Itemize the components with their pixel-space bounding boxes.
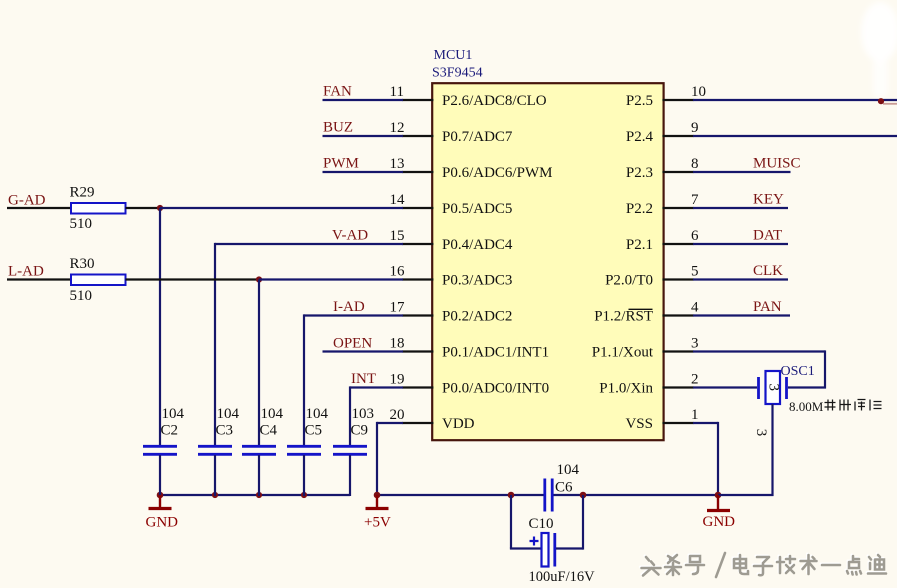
svg-text:8: 8 [691,156,699,172]
svg-text:P1.0/Xin: P1.0/Xin [599,380,653,396]
pin 17 stub [402,314,433,316]
wire INT to pin 19 [350,386,403,388]
capacitor C5 [287,445,321,448]
wire C4 bottom pin [258,455,260,496]
GND rail (left) [160,494,350,496]
wire R30 to junction (black) [126,278,260,280]
wire pin 3 horizontal [693,350,825,352]
svg-text:KEY: KEY [753,192,784,208]
svg-text:4: 4 [691,299,699,315]
wire pin3 vertical x825 [824,350,826,388]
wire net DAT (pin 6) [693,243,788,245]
wire net PWM (pin 13) [323,171,404,173]
wire net MUISC (pin 8) [693,171,791,173]
pin 13 stub [402,171,433,173]
junction C10 right [580,492,587,499]
junction dot on pin10 wire [878,98,884,104]
junction C4 rail [256,492,262,498]
svg-text:P0.5/ADC5: P0.5/ADC5 [442,201,512,217]
svg-text:OPEN: OPEN [333,336,372,352]
svg-text:C2: C2 [161,423,179,439]
wire VDD pin 20 corner [377,422,403,424]
svg-text:P0.4/ADC4: P0.4/ADC4 [442,237,513,253]
svg-text:P1.2/RST: P1.2/RST [594,308,653,324]
pin 7 stub [662,207,693,209]
junction C10 left [508,492,515,499]
svg-text:14: 14 [390,192,406,208]
power +5V symbol [376,495,378,508]
svg-text:P0.0/ADC0/INT0: P0.0/ADC0/INT0 [442,380,549,396]
svg-text:VSS: VSS [625,416,653,432]
svg-text:GND: GND [703,514,736,530]
pin 6 stub [662,243,693,245]
svg-text:V-AD: V-AD [332,228,368,244]
svg-text:P0.6/ADC6/PWM: P0.6/ADC6/PWM [442,165,552,181]
svg-text:16: 16 [390,263,406,279]
capacitor C3 [198,445,232,448]
svg-text:104: 104 [557,462,580,478]
junction C5 rail [301,492,307,498]
svg-text:10: 10 [691,84,706,100]
svg-text:11: 11 [390,84,404,100]
junction +5V anchor [374,492,381,499]
capacitor C10 (electrolytic) positive plate [542,533,549,567]
junction C2/GND [157,492,164,499]
capacitor C9 [333,445,367,448]
ground symbol right [717,495,719,510]
svg-text:GND: GND [146,515,179,531]
pin 9 stub [662,135,693,137]
svg-text:3: 3 [753,429,769,437]
wire net PAN (pin 4) [693,314,790,316]
capacitor C2 [143,445,177,448]
svg-text:P2.5: P2.5 [626,93,653,109]
pin 12 stub [402,135,433,137]
wire R29 to junction (black) [126,207,161,209]
wire C3 bottom pin [214,455,216,496]
wire I-AD to pin 17 [304,314,403,316]
wire C6 right to GND [553,494,718,496]
svg-text:12: 12 [390,120,405,136]
resistor R29 [71,203,126,214]
watermark 头条号 / 电子技术一点通 [640,553,886,577]
wire G-AD to R29 (black) [7,207,72,209]
wire C10 branch left vertical [510,495,512,549]
pin 18 stub [402,350,433,352]
svg-text:104: 104 [261,406,284,422]
svg-text:104: 104 [306,406,329,422]
svg-text:P0.7/ADC7: P0.7/ADC7 [442,129,513,145]
wire pin 9 to right edge [693,135,897,137]
svg-text:13: 13 [390,156,405,172]
capacitor C4 [242,445,276,448]
svg-text:BUZ: BUZ [323,120,353,136]
wire L-AD to R30 (black) [7,278,72,280]
wire C5 column vertical [303,314,305,446]
svg-text:18: 18 [390,335,405,351]
svg-text:510: 510 [70,216,93,232]
svg-text:100uF/16V: 100uF/16V [529,569,596,585]
wire C2 bottom pin [159,455,161,496]
wire C9 column vertical [349,386,351,446]
svg-text:P1.1/Xout: P1.1/Xout [592,344,654,360]
plus sign (C10 polarity) [530,537,539,546]
svg-text:C4: C4 [260,423,278,439]
wire junction to pin 14 [160,207,403,209]
wire C4 column vertical [258,280,260,447]
svg-text:P2.1: P2.1 [626,237,653,253]
pin 1 stub [662,422,693,424]
svg-text:C5: C5 [305,423,323,439]
svg-text:2: 2 [691,371,699,387]
svg-text:P2.2: P2.2 [626,201,653,217]
svg-text:G-AD: G-AD [8,192,46,208]
svg-text:FAN: FAN [323,84,352,100]
svg-text:3: 3 [691,335,699,351]
junction node row14 x160 [157,205,163,211]
pin 2 stub [662,386,693,388]
svg-text:17: 17 [390,299,406,315]
capacitor C6 [543,479,546,512]
svg-text:5: 5 [691,263,699,279]
pin 5 stub [662,278,693,280]
resonator OSC1 left plate [757,377,760,399]
svg-text:CLK: CLK [753,263,783,279]
CJK 矮脚陶振 (short-lead ceramic resonator) [825,400,882,411]
pin 16 stub [402,278,433,280]
ground symbol left [159,495,161,508]
svg-text:6: 6 [691,228,699,244]
wire V-AD to pin 15 [215,243,403,245]
svg-text:C3: C3 [216,423,234,439]
svg-text:1: 1 [691,407,699,423]
svg-text:104: 104 [162,406,185,422]
wire rail to OSC pin [718,494,774,496]
wire junction to pin 16 [259,278,403,280]
OSC1 bottom pin wire [771,404,773,496]
svg-text:R30: R30 [70,256,95,272]
svg-text:P2.4: P2.4 [626,129,654,145]
svg-text:DAT: DAT [753,228,782,244]
pin 15 stub [402,243,433,245]
svg-text:104: 104 [217,406,240,422]
junction GND anchor right [715,492,722,499]
wire C2 column vertical [159,208,161,446]
svg-text:MCU1: MCU1 [434,48,473,63]
resistor R30 [71,275,126,286]
wire C10 branch left horizontal [510,547,542,549]
svg-text:P0.2/ADC2: P0.2/ADC2 [442,308,512,324]
svg-text:I-AD: I-AD [333,299,365,315]
pin 10 stub [662,99,693,101]
svg-text:C6: C6 [555,480,573,496]
wire net KEY (pin 7) [693,207,788,209]
svg-text:3: 3 [765,383,781,391]
resonator OSC1 body [766,371,781,404]
junction C3 rail [212,492,218,498]
svg-text:PAN: PAN [753,299,782,315]
wire VSS vertical to GND rail [717,422,719,495]
svg-text:8.00M: 8.00M [789,399,824,414]
wire to OSC right plate [788,386,826,388]
pin 8 stub [662,171,693,173]
wire net OPEN (pin 18) [323,350,404,352]
svg-text:15: 15 [390,228,405,244]
svg-text:P2.0/T0: P2.0/T0 [605,272,653,288]
svg-text:P0.1/ADC1/INT1: P0.1/ADC1/INT1 [442,344,549,360]
wire net FAN (pin 11) [323,99,404,101]
svg-text:9: 9 [691,120,699,136]
svg-text:C10: C10 [529,516,554,532]
svg-text:PWM: PWM [323,156,359,172]
svg-text:20: 20 [390,407,405,423]
wire C5 bottom pin [303,455,305,496]
svg-text:VDD: VDD [442,416,475,432]
wire C10 branch right vertical [582,495,584,550]
svg-text:7: 7 [691,192,699,208]
IC U: MCU1 S3F9454 body [432,83,663,440]
wire C10 branch right horizontal [556,547,583,549]
svg-text:MUISC: MUISC [753,156,801,172]
wire net BUZ (pin 12) [323,135,404,137]
faint red smear right of junction [883,103,897,105]
svg-text:P2.6/ADC8/CLO: P2.6/ADC8/CLO [442,93,547,109]
svg-text:510: 510 [70,288,93,304]
wire net CLK (pin 5) [693,278,788,280]
junction node row16 x259 [256,276,262,282]
wire C9 bottom pin [349,455,351,496]
wire pin 2 to OSC left plate [693,386,757,388]
wire pin 1 VSS horizontal [693,422,718,424]
svg-text:19: 19 [390,371,405,387]
svg-text:L-AD: L-AD [8,263,44,279]
svg-text:C9: C9 [351,423,369,439]
svg-text:P2.3: P2.3 [626,165,653,181]
resonator OSC1 right plate [785,377,788,399]
overline on RST [629,308,653,310]
capacitor C10 negative plate [553,533,556,567]
svg-text:OSC1: OSC1 [781,364,815,379]
pin 11 stub [402,99,433,101]
pin 14 stub [402,207,433,209]
svg-text:+5V: +5V [364,515,391,531]
svg-text:P0.3/ADC3: P0.3/ADC3 [442,272,512,288]
wire pin 10 to right edge [693,99,897,101]
svg-text:INT: INT [351,371,376,387]
+5V rail VDD to C6 [377,494,544,496]
wire C3 column vertical [214,243,216,446]
pin 3 stub [662,350,693,352]
pin 19 stub [402,386,433,388]
pin 20 stub [402,422,433,424]
pin 4 stub [662,314,693,316]
svg-text:R29: R29 [70,185,95,201]
svg-text:S3F9454: S3F9454 [432,66,483,81]
svg-text:103: 103 [352,406,375,422]
wire VDD vertical to +5V rail [376,422,378,495]
